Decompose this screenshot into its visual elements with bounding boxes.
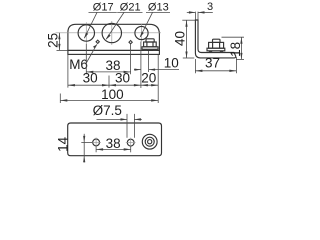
svg-text:25: 25	[46, 33, 61, 48]
svg-text:18: 18	[228, 42, 243, 57]
M6 hole 1	[95, 39, 100, 44]
svg-text:Ø21: Ø21	[120, 2, 141, 14]
leader Ø21	[106, 12, 124, 39]
svg-text:40: 40	[173, 31, 188, 46]
svg-text:14: 14	[55, 136, 70, 152]
front screw washer	[142, 47, 158, 50]
nut ring	[145, 137, 154, 146]
ext plate left down	[67, 55, 69, 88]
svg-text:Ø7.5: Ø7.5	[93, 103, 122, 118]
svg-text:20: 20	[141, 71, 156, 86]
dim 38 (row1)	[86, 71, 130, 73]
vertical centerline C1	[85, 22, 87, 44]
hole C3 (Ø13)	[135, 26, 148, 39]
dim 38 (bottom)	[96, 148, 131, 150]
front screw hex body	[144, 42, 157, 47]
ext plate right down	[157, 55, 159, 103]
dim Ø7.5 lines	[97, 118, 128, 120]
svg-text:30: 30	[115, 71, 130, 86]
svg-text:38: 38	[106, 136, 121, 151]
hole B centermarks	[126, 142, 136, 144]
side bolt cap	[213, 39, 221, 42]
ext row3 left	[59, 94, 61, 104]
ext line C3 down	[140, 42, 142, 89]
plate outline	[68, 24, 159, 50]
L-profile	[195, 20, 235, 58]
svg-text:30: 30	[83, 71, 98, 86]
dim 14	[81, 141, 92, 143]
svg-text:Ø13: Ø13	[148, 2, 169, 14]
hole A	[93, 139, 100, 146]
dim 10	[134, 69, 141, 71]
dim 3	[187, 11, 196, 13]
nut seen from below: washer circle	[142, 134, 157, 149]
ext lines Ø7.5	[126, 114, 128, 138]
front screw cap	[146, 39, 154, 42]
nut inner hole	[148, 140, 152, 144]
side nut hex	[209, 42, 224, 48]
vertical centerline C2	[111, 21, 113, 45]
dim 40	[182, 19, 195, 21]
svg-text:Ø17: Ø17	[93, 2, 114, 14]
dim 25 bottom extension	[57, 49, 68, 51]
M6 leader	[86, 44, 97, 63]
ext line M6 hole2 down	[130, 44, 132, 74]
hole C2 (Ø21)	[102, 23, 121, 42]
svg-text:3: 3	[207, 1, 213, 13]
base plate outline	[68, 123, 162, 156]
leader Ø13	[140, 12, 152, 36]
ext holes down	[95, 146, 97, 152]
horizontal centerline	[56, 32, 162, 34]
svg-text:10: 10	[164, 56, 179, 71]
ext line screw center down	[148, 51, 150, 72]
dim row2 30/30/20	[68, 84, 158, 86]
svg-text:37: 37	[205, 56, 220, 71]
dim 18	[222, 36, 245, 38]
side nut washer	[207, 48, 225, 51]
leader Ø17	[84, 12, 97, 38]
dim 37	[194, 59, 196, 73]
ext lines above leg	[194, 12, 196, 20]
front screw feet	[144, 49, 147, 51]
base band (horizontal leg edge-on)	[68, 50, 159, 54]
ext line C1 down	[85, 44, 87, 74]
hole C1 (Ø17)	[78, 25, 94, 41]
side nut feet	[209, 51, 212, 53]
M6 hole 2	[128, 40, 133, 45]
front screw hex facets	[146, 42, 148, 47]
dim 100	[60, 99, 158, 101]
hole B	[127, 139, 134, 146]
svg-text:100: 100	[101, 87, 124, 102]
ext C2 tick row2	[108, 76, 110, 88]
vertical centerline C3	[141, 24, 143, 42]
dim 25 line	[58, 33, 60, 51]
hole A centermarks	[91, 141, 101, 143]
